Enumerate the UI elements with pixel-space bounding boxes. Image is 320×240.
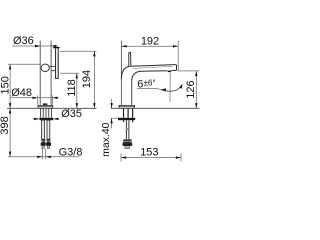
stud stubs under plate [124,120,133,122]
svg-text:±6°: ±6° [144,79,156,88]
left fitting nut [41,143,46,146]
svg-text:Ø36: Ø36 [13,35,34,47]
lever cap (side) [53,47,59,48]
svg-text:118: 118 [66,79,78,97]
dim 118 arrows [76,73,78,78]
svg-text:126: 126 [185,80,197,98]
6±6° underline leader [137,88,162,89]
dim G3/8 arrows [37,156,42,158]
dim Ø36 line + arrows [12,45,59,47]
dim 126 arrows [195,71,197,76]
dim 118 line [76,73,78,108]
svg-text:192: 192 [141,36,159,48]
cartridge collar (side) [43,103,48,105]
dim 192 line [121,45,178,47]
svg-text:G3/8: G3/8 [59,147,83,159]
left hose stub [42,146,44,149]
dim 150/398 vertical line [9,64,11,157]
riser left edge + 192 extension line [120,41,122,105]
dim 398 arrows [9,108,11,113]
left hose fitting [42,139,46,143]
aerator circle on tip face [41,64,49,71]
svg-text:194: 194 [81,70,93,88]
dim 126 line [195,71,197,108]
dim G3/8 extension ticks [42,149,45,160]
dim Ø35 line + arrows + text [33,118,60,120]
dim Ø48 leader/dim line [11,97,59,99]
spout second top line [133,66,173,68]
lever bar (side) [56,48,59,78]
stream line below aerator [169,73,171,103]
dim Ø48 arrows [33,97,38,99]
right fitting nut [46,143,51,146]
svg-text:max.40: max.40 [100,122,112,157]
spout edge lines to lever [49,66,55,70]
dim max.40 line + arrows [111,99,113,129]
threaded shank (side) [41,108,52,118]
outer bend [121,66,131,79]
inner bend [132,71,141,81]
svg-text:153: 153 [140,147,158,159]
dim 153 arrows [121,156,126,158]
spout top edge [131,65,175,67]
dim 118 extension line [60,72,79,74]
fitting nut (front) [123,143,133,146]
angle arc with arrows [161,85,182,91]
svg-text:398: 398 [0,116,11,134]
dim 150 arrows [9,64,11,69]
hose ferrule [126,128,130,130]
riser right edge [131,81,133,105]
deck line (side view) [7,107,97,109]
svg-text:150: 150 [0,76,11,94]
dim Ø48 extension lines [38,95,53,104]
left hose (side) [42,120,45,139]
fitting (front) [123,139,131,143]
hose (front) [126,120,128,139]
stub (front) [125,146,130,149]
faucet body left edge / Ø36 extension [39,41,41,105]
mounting studs (front) [124,108,133,118]
svg-text:Ø48: Ø48 [11,87,32,99]
aerator bump [167,70,172,72]
spout tip face [172,65,177,71]
right hose stub [47,146,49,149]
mounting plate (front) + max.40 extension [118,118,135,120]
dim 126 top extension [177,70,199,72]
dim 150 extension line (top) [8,63,40,65]
dim 194 extension line (top) [60,50,97,52]
dim 194 line [93,51,95,108]
right hose (side) [47,120,50,139]
dim 192 right extension [177,41,179,71]
spout underside [141,70,167,73]
dim 153 line [121,157,181,159]
dim G3/8 / 398 bottom line [8,156,79,158]
faucet body right edge / Ø36 extension [50,41,52,105]
mounting plate (side) [39,118,53,120]
base flange (side) [38,105,53,108]
base flange (front) [119,105,135,108]
deck line (front view) [111,107,200,109]
dim 192 arrows [121,45,126,47]
dim 194 arrows [93,51,95,56]
svg-text:Ø35: Ø35 [61,108,82,120]
dim 153 ticks [121,154,181,162]
right hose fitting [47,139,51,143]
lever blade (front) [129,52,131,66]
